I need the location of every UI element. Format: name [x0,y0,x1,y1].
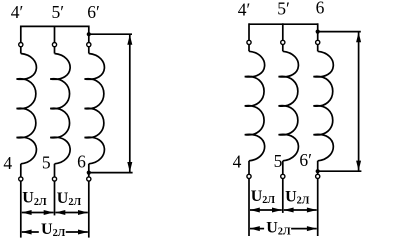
wire stub below terminal 6' [317,179,319,237]
wire stub to terminal 6 [317,23,319,40]
junction on stub 6 [316,30,320,34]
wire stub below terminal 5 [282,179,284,213]
winding 5-5' [50,54,70,164]
terminal 6' [87,43,91,47]
wire lead-out winding 5-5' [282,161,284,175]
terminal 5' [52,43,56,47]
wire stub below terminal 4 [20,181,22,238]
wire top rail [249,23,318,25]
wire branch from 6' to voltage arrow [89,33,132,35]
junction on stub 6' [87,32,91,36]
svg-text:4′: 4′ [238,0,251,19]
wire stub to terminal 4' [248,23,250,40]
voltage arrow U2л between 4 and 6' [250,228,264,230]
wire stub to terminal 5' [282,23,284,40]
wire lead-out winding 6-6' reversed [317,161,319,175]
winding 5-5' [279,51,299,161]
winding 4-4' [17,54,37,164]
winding 6-6' [85,54,105,164]
terminal 6 [87,177,91,181]
terminal 6' [316,174,320,178]
wire lead-in winding 4-4' [20,47,22,54]
wire branch from 6 to voltage arrow [318,31,361,33]
voltage arrow U2л between 5 and 6' [284,209,317,211]
wire branch from 6' to voltage arrow [318,170,362,172]
wire stub to terminal 6' [88,26,90,43]
svg-text:5: 5 [42,153,51,173]
terminal 4' [19,43,23,47]
voltage arrow 6-6' (vertical double-headed) [358,32,360,172]
svg-text:4: 4 [233,152,242,172]
voltage arrow U2л between 5 and 6 [56,212,88,214]
wire lead-in winding 5-5' [54,47,56,54]
svg-text:6′: 6′ [299,150,312,170]
terminal 4' [247,40,251,44]
voltage arrow U2л between 4 and 5 [22,212,54,214]
wire branch from 6 to voltage arrow [89,172,133,174]
terminal 5 [52,177,56,181]
wire lead-in winding 4-4' [248,45,250,52]
voltage arrow 6'-6 (vertical double-headed) [129,34,131,172]
wire stub below terminal 6 [88,181,90,238]
wire stub below terminal 4 [248,179,250,237]
svg-text:4′: 4′ [11,2,24,22]
wire lead-out winding 4-4' [20,164,22,177]
svg-text:5′: 5′ [277,0,290,19]
junction on lead 6 [87,171,91,175]
wire lead-out winding 6-6' [88,164,90,177]
wire lead-out winding 4-4' [248,161,250,175]
wire lead-in winding 6-6' [88,47,90,54]
terminal 6 [316,40,320,44]
wire stub to terminal 4' [20,26,22,43]
wire lead-in winding 5-5' [282,45,284,52]
terminal 4 [247,174,251,178]
voltage arrow U2л between 4 and 6 [22,231,39,233]
voltage arrow U2л between 4 and 5 [250,209,282,211]
svg-text:6′: 6′ [87,2,100,22]
svg-text:6: 6 [77,152,86,172]
winding 4-4' [245,51,265,161]
svg-text:5: 5 [274,151,283,171]
svg-text:5′: 5′ [52,2,65,22]
terminal 5' [281,40,285,44]
winding 6-6' reversed [313,51,333,161]
svg-text:6: 6 [316,0,325,18]
svg-text:4: 4 [3,153,12,173]
wire lead-in winding 6-6' reversed [317,45,319,52]
wire lead-out winding 5-5' [54,164,56,177]
terminal 4 [19,177,23,181]
wire stub below terminal 5 [54,181,56,215]
wire top rail [21,25,89,27]
terminal 5 [281,174,285,178]
wire stub to terminal 5' [54,26,56,43]
junction on lead 6' [316,169,320,173]
